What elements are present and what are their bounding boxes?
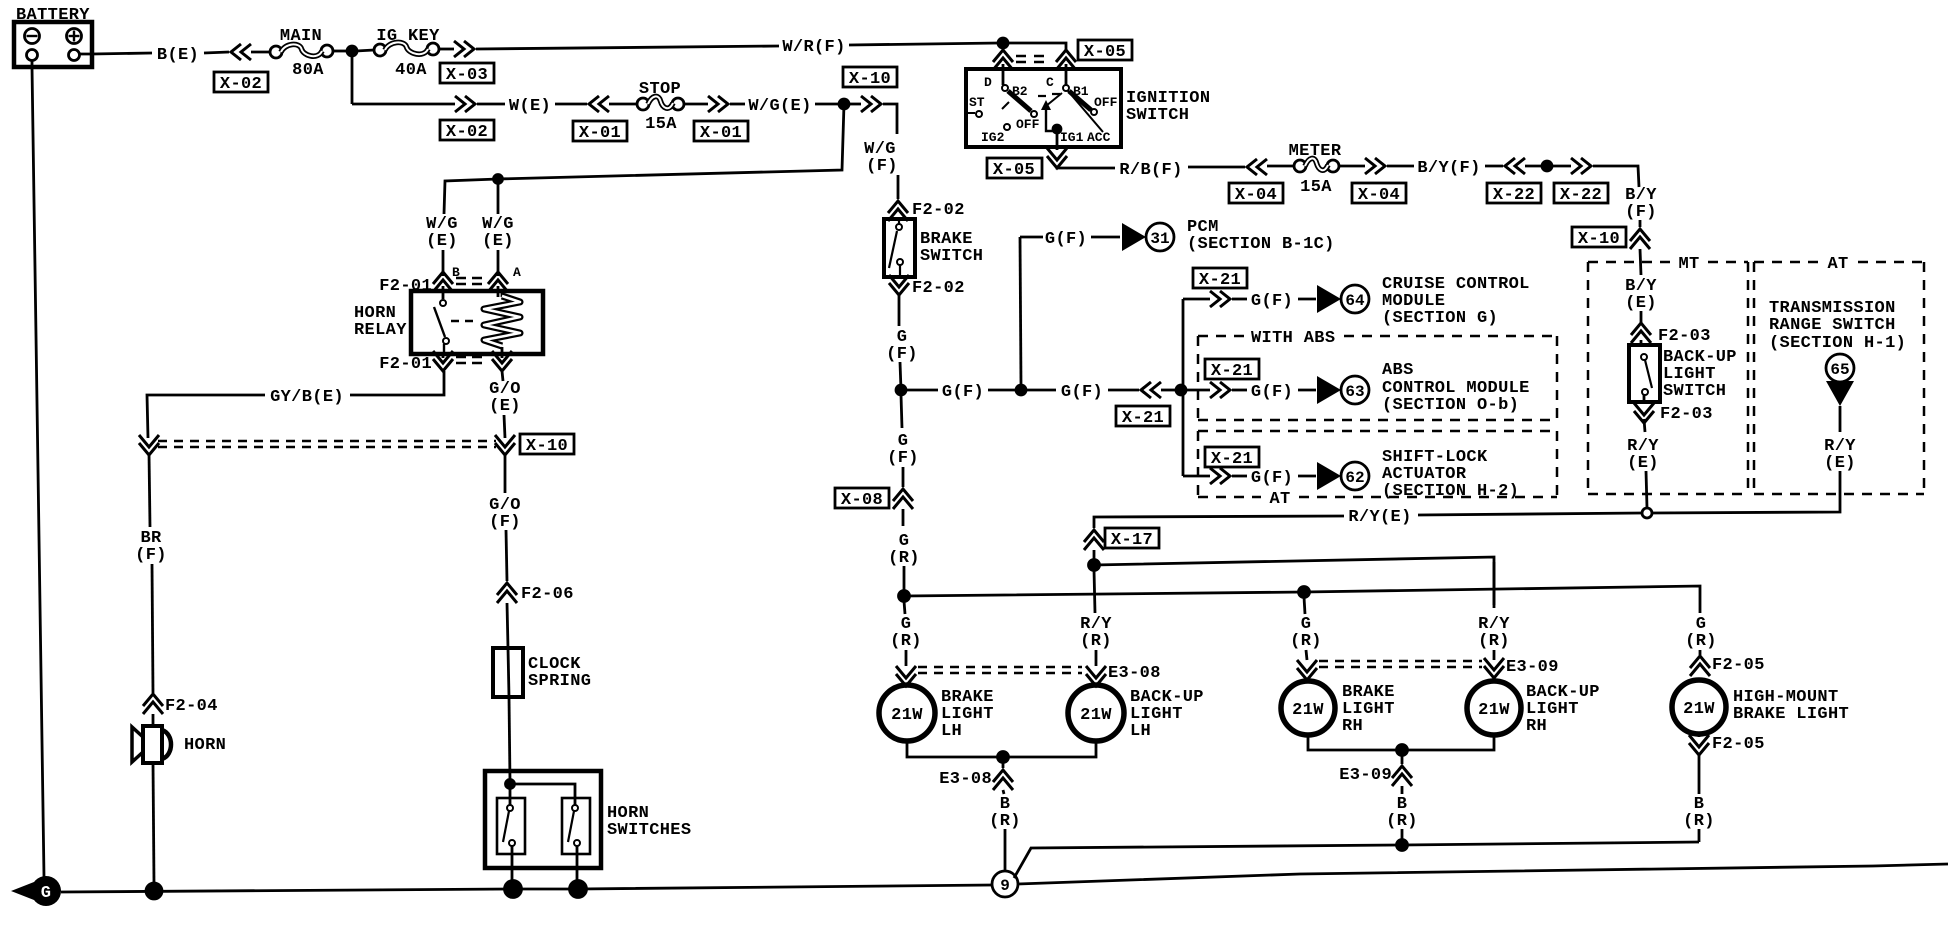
svg-text:X-02: X-02 bbox=[446, 123, 488, 142]
svg-text:E3-09: E3-09 bbox=[1339, 766, 1392, 785]
svg-text:E3-08: E3-08 bbox=[1108, 664, 1161, 683]
horn relay actuation dashes bbox=[451, 320, 473, 322]
wire bbox=[1002, 43, 1005, 50]
fuse MAIN 80A bbox=[270, 44, 333, 58]
connector label X-02 bbox=[440, 120, 494, 142]
svg-text:F2-05: F2-05 bbox=[1712, 735, 1765, 754]
wire horn to ground bbox=[153, 763, 154, 884]
svg-text:(F): (F) bbox=[866, 157, 898, 176]
svg-text:WITH ABS: WITH ABS bbox=[1251, 329, 1335, 348]
svg-text:AT: AT bbox=[1827, 255, 1848, 274]
wire below G(F) junction bbox=[901, 395, 902, 428]
connector chevron F2-02 bottom bbox=[889, 275, 909, 295]
wire bbox=[1091, 236, 1120, 239]
svg-text:X-21: X-21 bbox=[1122, 409, 1164, 428]
ignition contact B1 bbox=[1063, 85, 1069, 91]
connector label X-02 bbox=[214, 72, 268, 94]
connector chevron X-22 bbox=[1505, 158, 1525, 174]
wire stubs below relay bbox=[443, 354, 502, 358]
connector label X-21 bottom bbox=[1205, 447, 1259, 469]
wire bbox=[1002, 757, 1005, 768]
wire BR(F) bbox=[149, 453, 150, 527]
svg-text:D: D bbox=[984, 75, 992, 90]
connector label X-01 bbox=[694, 121, 748, 143]
wire bbox=[730, 103, 745, 106]
wire GY/B(E) to horn bbox=[350, 371, 444, 395]
svg-text:X-03: X-03 bbox=[446, 66, 488, 85]
svg-text:SPRING: SPRING bbox=[528, 672, 591, 691]
svg-text:(R): (R) bbox=[1685, 632, 1717, 651]
wire brake light LH drop bbox=[904, 601, 905, 614]
connector label X-08 bbox=[835, 488, 889, 510]
svg-text:X-10: X-10 bbox=[526, 437, 568, 456]
wire bbox=[1003, 790, 1004, 794]
wire from 65 bbox=[1839, 406, 1842, 432]
MT dashed box bbox=[1588, 262, 1748, 494]
page ref 31 PCM bbox=[1122, 223, 1174, 251]
wire bbox=[1525, 165, 1542, 168]
wire cruise branch bbox=[1183, 298, 1210, 301]
junction bbox=[1176, 385, 1186, 395]
high-mount brake light lamp bbox=[1672, 680, 1726, 734]
connector label X-10 right bbox=[1572, 227, 1626, 249]
wire brake RH drop bbox=[1304, 597, 1305, 614]
svg-text:(R): (R) bbox=[1290, 632, 1322, 651]
fuse IG KEY 40A bbox=[374, 42, 439, 56]
connector F2-01 dashes bottom bbox=[456, 357, 482, 363]
wire bbox=[356, 50, 374, 51]
wire bbox=[251, 51, 270, 54]
wire bbox=[1401, 829, 1404, 845]
wire PCM branch bbox=[1020, 236, 1043, 239]
wire bbox=[905, 650, 908, 666]
connector chevron X-17 bbox=[1084, 530, 1104, 550]
svg-text:W(E): W(E) bbox=[509, 97, 551, 116]
connector X-05 dashes bbox=[1016, 56, 1044, 62]
svg-text:X-04: X-04 bbox=[1358, 186, 1400, 205]
svg-text:80A: 80A bbox=[292, 61, 324, 80]
wire bbox=[1004, 829, 1007, 871]
connector F2-01 chevrons bottom bbox=[433, 351, 453, 371]
svg-text:MT: MT bbox=[1678, 255, 1699, 274]
wire bbox=[1640, 249, 1641, 275]
clock spring wire through bbox=[508, 648, 509, 697]
connector chevron X-05 bottom bbox=[1047, 148, 1067, 168]
wire bbox=[684, 103, 708, 106]
svg-text:MAIN: MAIN bbox=[280, 27, 322, 46]
connector label X-03 bbox=[440, 63, 494, 85]
svg-text:62: 62 bbox=[1345, 469, 1364, 487]
connector E3-08 dashed pair bbox=[918, 667, 1082, 673]
connector chevron E3-08 LH bbox=[896, 666, 916, 686]
wire to brake switch bbox=[883, 104, 897, 134]
wire bbox=[1640, 340, 1643, 345]
page ref 65 transmission range switch bbox=[1826, 354, 1854, 406]
wire bbox=[1646, 471, 1647, 508]
svg-text:E3-09: E3-09 bbox=[1506, 658, 1559, 677]
svg-text:(E): (E) bbox=[1824, 454, 1856, 473]
junction bbox=[1397, 840, 1408, 851]
svg-text:SWITCHES: SWITCHES bbox=[607, 821, 691, 840]
connector chevron X-02 bbox=[231, 44, 251, 60]
svg-text:R/B(F): R/B(F) bbox=[1119, 161, 1182, 180]
svg-text:(SECTION B-1C): (SECTION B-1C) bbox=[1187, 235, 1335, 254]
svg-text:X-17: X-17 bbox=[1111, 531, 1153, 550]
AT dashed box bbox=[1754, 262, 1924, 494]
wire bbox=[1639, 220, 1642, 227]
wire bbox=[1008, 43, 1066, 50]
ignition rotor arm left bbox=[1008, 91, 1031, 111]
connector label X-21 mid bbox=[1205, 359, 1259, 381]
svg-text:21W: 21W bbox=[1683, 700, 1715, 719]
connector label X-04 bbox=[1352, 183, 1406, 205]
wire to right switch bbox=[510, 784, 575, 805]
svg-text:B(E): B(E) bbox=[157, 46, 199, 65]
connector label X-10 bbox=[520, 434, 574, 456]
connector chevron X-22 bbox=[1571, 158, 1591, 174]
wire stubs into ignition switch bbox=[1003, 64, 1066, 85]
svg-text:(R): (R) bbox=[1683, 812, 1715, 831]
connector chevron X-08 bbox=[893, 489, 913, 509]
wire bbox=[497, 250, 500, 276]
wire bbox=[504, 415, 505, 438]
svg-text:RANGE SWITCH: RANGE SWITCH bbox=[1769, 316, 1896, 335]
wire IG1 out bbox=[1056, 131, 1059, 150]
svg-text:LH: LH bbox=[1130, 722, 1151, 741]
svg-text:(R): (R) bbox=[888, 549, 920, 568]
connector chevron F2-02 top bbox=[888, 201, 908, 221]
junction bbox=[839, 99, 849, 109]
svg-text:31: 31 bbox=[1150, 230, 1169, 248]
connector chevron X-10 right bbox=[495, 435, 515, 455]
wire bbox=[1026, 389, 1056, 392]
wire bbox=[900, 362, 901, 390]
svg-text:F2-04: F2-04 bbox=[165, 697, 218, 716]
connector label X-01 bbox=[573, 121, 627, 143]
wire bbox=[1698, 753, 1701, 794]
svg-text:AT: AT bbox=[1269, 490, 1290, 509]
junction bbox=[1299, 587, 1310, 598]
junction bbox=[347, 46, 357, 56]
wire bbox=[1640, 311, 1643, 324]
ground bus right bbox=[1018, 864, 1948, 884]
wire X-21 vertical bbox=[1182, 299, 1185, 476]
svg-text:X-01: X-01 bbox=[700, 124, 742, 143]
svg-text:OFF: OFF bbox=[1016, 117, 1040, 132]
svg-text:F2-03: F2-03 bbox=[1658, 327, 1711, 346]
svg-text:(R): (R) bbox=[890, 632, 922, 651]
wire bbox=[333, 50, 348, 53]
wire bbox=[152, 714, 155, 726]
wire bbox=[1093, 550, 1096, 562]
wire to left switch bbox=[509, 784, 512, 805]
svg-text:ACC: ACC bbox=[1087, 130, 1111, 145]
horn switch right bbox=[562, 798, 590, 854]
wire bbox=[1232, 475, 1247, 478]
svg-text:F2-03: F2-03 bbox=[1660, 405, 1713, 424]
junction inside horn switches bbox=[506, 780, 515, 789]
svg-text:65: 65 bbox=[1830, 361, 1849, 379]
svg-text:(E): (E) bbox=[1627, 454, 1659, 473]
svg-text:OFF: OFF bbox=[1094, 95, 1118, 110]
connector chevron X-04 bbox=[1365, 158, 1385, 174]
junction bbox=[1016, 385, 1026, 395]
wire bbox=[507, 603, 508, 648]
wire bbox=[1485, 165, 1503, 168]
fuse STOP 15A bbox=[637, 96, 684, 110]
connector chevron X-10 right bbox=[1630, 229, 1650, 249]
svg-text:G(F): G(F) bbox=[942, 383, 984, 402]
connector chevron E3-09 bottom bbox=[1392, 766, 1412, 786]
svg-text:HORN: HORN bbox=[184, 736, 226, 755]
connector chevron E3-09 RH bbox=[1484, 658, 1504, 678]
wire bbox=[1267, 165, 1294, 168]
wire bbox=[1401, 786, 1404, 794]
branch wire to W(E) bbox=[351, 51, 354, 104]
back-up light switch bbox=[1629, 345, 1660, 402]
connector chevron X-10 bbox=[861, 96, 881, 112]
svg-text:(R): (R) bbox=[989, 812, 1021, 831]
wire backup RH drop bbox=[1493, 562, 1496, 608]
connector chevron F2-03 top bbox=[1631, 323, 1651, 343]
wire bbox=[902, 509, 905, 526]
svg-text:W/G(E): W/G(E) bbox=[748, 97, 811, 116]
wire bbox=[815, 103, 839, 106]
svg-text:X-10: X-10 bbox=[1578, 230, 1620, 249]
svg-text:9: 9 bbox=[1000, 877, 1010, 895]
connector label X-04 bbox=[1229, 183, 1283, 205]
page ref 64 cruise control module bbox=[1317, 285, 1369, 313]
wire bbox=[439, 48, 454, 51]
junction horn switch grounds bbox=[505, 881, 522, 898]
svg-text:G(F): G(F) bbox=[1045, 230, 1087, 249]
wire W(E) row bbox=[352, 103, 455, 106]
svg-text:X-04: X-04 bbox=[1235, 186, 1277, 205]
junction bbox=[1397, 745, 1408, 756]
svg-text:BRAKE LIGHT: BRAKE LIGHT bbox=[1733, 705, 1849, 724]
ignition IG1 bracket bbox=[1046, 107, 1057, 131]
svg-text:SWITCH: SWITCH bbox=[1126, 106, 1189, 125]
wire lamp bottoms RH pair bbox=[1308, 735, 1402, 750]
wire bbox=[1339, 165, 1365, 168]
svg-text:X-22: X-22 bbox=[1560, 186, 1602, 205]
svg-text:X-05: X-05 bbox=[1084, 43, 1126, 62]
svg-text:F2-02: F2-02 bbox=[912, 201, 965, 220]
connector chevron F2-05 top bbox=[1690, 656, 1710, 676]
ground symbol G bbox=[11, 876, 61, 906]
svg-text:G(F): G(F) bbox=[1251, 292, 1293, 311]
page ref 63 ABS control module bbox=[1317, 376, 1369, 404]
svg-text:IG2: IG2 bbox=[981, 130, 1005, 145]
wire bbox=[1161, 389, 1177, 392]
wire bbox=[152, 564, 153, 693]
junction backup bus bbox=[1089, 560, 1100, 571]
svg-text:SWITCH: SWITCH bbox=[1663, 382, 1726, 401]
wire bbox=[442, 250, 445, 276]
ignition contact B2 bbox=[1002, 85, 1008, 91]
junction bbox=[494, 175, 503, 184]
svg-text:BATTERY: BATTERY bbox=[16, 6, 90, 25]
connector chevron X-04 bbox=[1247, 159, 1267, 175]
connector label X-22 bbox=[1487, 183, 1541, 205]
wire bbox=[1698, 829, 1701, 842]
ignition rotor arm right bbox=[1069, 91, 1091, 110]
connector chevron X-21 top bbox=[1210, 291, 1230, 307]
svg-text:X-02: X-02 bbox=[220, 75, 262, 94]
horn relay box bbox=[411, 291, 543, 354]
svg-text:X-21: X-21 bbox=[1211, 362, 1253, 381]
connector chevron X-21 bottom bbox=[1210, 468, 1230, 484]
wire shift-lock branch bbox=[1183, 475, 1210, 478]
ignition switch box bbox=[966, 69, 1121, 147]
connector F2-01 dashes bbox=[456, 278, 482, 284]
svg-text:RH: RH bbox=[1342, 717, 1363, 736]
svg-text:G(F): G(F) bbox=[1251, 383, 1293, 402]
connector F2-01 chevrons top bbox=[433, 272, 453, 292]
junction brake bus bbox=[899, 591, 910, 602]
svg-text:X-22: X-22 bbox=[1493, 186, 1535, 205]
wire bbox=[1232, 389, 1247, 392]
wire bbox=[849, 43, 999, 45]
ground ref circle 9 bbox=[992, 871, 1018, 897]
wire bbox=[1552, 165, 1571, 168]
wire backup LH drop bbox=[1094, 570, 1095, 613]
connector open circle bbox=[1642, 508, 1652, 518]
connector chevron E3-09 LH side bbox=[1297, 660, 1317, 680]
horn switch left bbox=[497, 798, 525, 854]
svg-text:(F): (F) bbox=[135, 546, 167, 565]
svg-text:X-21: X-21 bbox=[1199, 271, 1241, 290]
svg-text:63: 63 bbox=[1345, 383, 1364, 401]
wire lamp bottoms LH pair bbox=[907, 741, 1003, 757]
connector label X-05 top bbox=[1078, 40, 1132, 62]
battery bbox=[14, 22, 92, 67]
wire B/Y corner down bbox=[1593, 166, 1639, 187]
junction horn ground bbox=[146, 883, 162, 899]
brake light LH lamp bbox=[879, 685, 935, 741]
horn relay switch contact bbox=[434, 300, 449, 354]
svg-text:G: G bbox=[41, 884, 52, 903]
horn switches box bbox=[485, 771, 601, 868]
svg-text:(E): (E) bbox=[1625, 294, 1657, 313]
wire bbox=[1232, 298, 1247, 301]
wire bbox=[504, 453, 507, 493]
svg-text:METER: METER bbox=[1289, 142, 1342, 161]
svg-text:E3-08: E3-08 bbox=[939, 770, 992, 789]
svg-text:(SECTION H-2): (SECTION H-2) bbox=[1382, 482, 1519, 501]
svg-text:(R): (R) bbox=[1478, 632, 1510, 651]
wire bbox=[1095, 650, 1098, 666]
svg-text:(R): (R) bbox=[1080, 632, 1112, 651]
svg-text:(SECTION O-b): (SECTION O-b) bbox=[1382, 396, 1519, 415]
svg-text:(F): (F) bbox=[887, 449, 919, 468]
wire bbox=[903, 566, 906, 592]
svg-text:LH: LH bbox=[941, 722, 962, 741]
ignition contact IG2 bbox=[1004, 124, 1010, 130]
wire bbox=[1094, 516, 1344, 528]
svg-text:(E): (E) bbox=[426, 232, 458, 251]
wire bbox=[1401, 750, 1404, 764]
wire W/G(E) down-left run bbox=[444, 104, 844, 214]
clock spring bbox=[493, 648, 523, 697]
back-up light LH lamp bbox=[1068, 685, 1124, 741]
svg-text:ST: ST bbox=[969, 95, 985, 110]
horn bbox=[132, 726, 171, 763]
wire bbox=[849, 103, 861, 106]
wire bbox=[902, 467, 905, 487]
svg-text:R/Y(E): R/Y(E) bbox=[1348, 508, 1411, 527]
wire bbox=[1643, 395, 1646, 402]
connector chevron E3-08 bottom bbox=[993, 770, 1013, 790]
junction bbox=[998, 752, 1009, 763]
wire bbox=[609, 103, 637, 106]
brake light RH lamp bbox=[1281, 681, 1335, 735]
svg-text:(F): (F) bbox=[886, 345, 918, 364]
wire bbox=[988, 389, 1016, 392]
svg-text:(E): (E) bbox=[482, 232, 514, 251]
wire bbox=[1298, 298, 1316, 301]
svg-text:X-10: X-10 bbox=[849, 70, 891, 89]
svg-text:64: 64 bbox=[1345, 292, 1365, 310]
wire bbox=[555, 103, 587, 106]
wire G(F) row bbox=[901, 389, 938, 392]
wire bbox=[1699, 650, 1702, 655]
svg-text:(SECTION H-1): (SECTION H-1) bbox=[1769, 334, 1906, 353]
connector chevron X-21 mid bbox=[1210, 382, 1230, 398]
wire R/B(F) bbox=[1057, 166, 1115, 168]
svg-text:GY/B(E): GY/B(E) bbox=[270, 388, 344, 407]
wire bbox=[506, 530, 507, 581]
ignition link dashes bbox=[1038, 94, 1060, 96]
wire bbox=[1186, 389, 1210, 392]
wire bbox=[1698, 734, 1701, 737]
wire G/O(E) from relay coil bbox=[502, 371, 503, 381]
shift-lock dashed box bbox=[1198, 431, 1557, 497]
connector chevron X-02 bbox=[455, 96, 475, 112]
connector label X-21 top bbox=[1193, 268, 1247, 290]
svg-text:ABS: ABS bbox=[1382, 361, 1414, 380]
svg-text:X-05: X-05 bbox=[993, 161, 1035, 180]
wire bbox=[477, 103, 505, 106]
svg-text:X-01: X-01 bbox=[579, 124, 621, 143]
wire backup bus bbox=[1094, 557, 1494, 605]
connector chevron F2-03 bottom bbox=[1634, 403, 1654, 423]
ignition ACC diagonal bbox=[1068, 91, 1103, 132]
wire bbox=[509, 697, 510, 782]
wire bbox=[1298, 475, 1316, 478]
svg-text:(SECTION G): (SECTION G) bbox=[1382, 309, 1498, 328]
svg-text:F2-02: F2-02 bbox=[912, 279, 965, 298]
svg-text:G(F): G(F) bbox=[1251, 469, 1293, 488]
junction bbox=[1542, 161, 1552, 171]
fuse METER 15A bbox=[1294, 158, 1339, 172]
svg-text:F2-06: F2-06 bbox=[521, 585, 574, 604]
svg-text:X-08: X-08 bbox=[841, 491, 883, 510]
connector label X-21 bbox=[1116, 406, 1170, 428]
connector chevron X-01 bbox=[589, 96, 609, 112]
connector chevron F2-06 bbox=[497, 583, 517, 603]
svg-text:RH: RH bbox=[1526, 717, 1547, 736]
svg-text:(F): (F) bbox=[1625, 203, 1657, 222]
wire bbox=[497, 179, 500, 214]
wire bbox=[898, 293, 901, 326]
connector chevron E3-08 RH side bbox=[1086, 666, 1106, 686]
svg-text:21W: 21W bbox=[891, 706, 923, 725]
connector chevron X-21 bbox=[1141, 382, 1161, 398]
svg-text:F2-05: F2-05 bbox=[1712, 656, 1765, 675]
wire B(R) bus bbox=[1014, 842, 1699, 878]
svg-text:G(F): G(F) bbox=[1061, 383, 1103, 402]
